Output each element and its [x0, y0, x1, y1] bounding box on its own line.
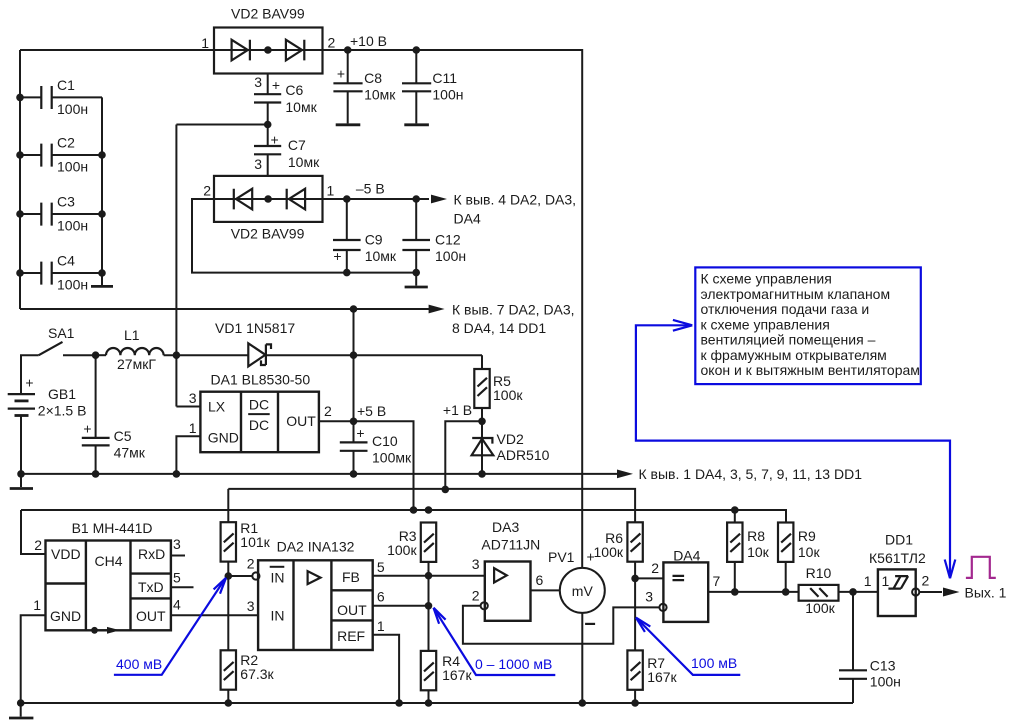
svg-text:DA2 INA132: DA2 INA132	[277, 539, 355, 555]
wire R6 bottom to R7	[634, 562, 636, 651]
svg-text:PV1: PV1	[548, 549, 575, 565]
svg-text:OUT: OUT	[337, 602, 367, 618]
node DA2 in-	[225, 572, 233, 580]
svg-text:REF: REF	[337, 628, 365, 644]
svg-text:101к: 101к	[240, 534, 270, 550]
wire +1V to distribution line	[445, 421, 482, 489]
capacitor C9	[346, 199, 348, 240]
svg-text:FB: FB	[342, 569, 360, 585]
svg-text:100н: 100н	[57, 277, 88, 293]
svg-text:C2: C2	[57, 135, 75, 151]
wire bottom rail	[21, 702, 853, 704]
svg-text:DA4: DA4	[673, 548, 700, 564]
wire right rail of C1-C4	[101, 97, 103, 273]
svg-text:VD2 BAV99: VD2 BAV99	[231, 6, 305, 22]
node C6/C7 junction	[264, 121, 272, 129]
wire R1 bottom to R2	[227, 562, 229, 651]
svg-text:100к: 100к	[594, 544, 624, 560]
svg-text:CH4: CH4	[95, 553, 123, 569]
node VD1/DA1 +5V vertical	[350, 351, 358, 359]
svg-text:+: +	[337, 66, 345, 82]
svg-text:10к: 10к	[798, 544, 821, 560]
svg-text:+5 В: +5 В	[357, 403, 386, 419]
blue arrow down to output	[945, 560, 956, 579]
svg-text:–5 В: –5 В	[356, 181, 385, 197]
svg-text:DA4: DA4	[454, 211, 481, 227]
svg-text:6: 6	[377, 589, 385, 605]
magenta pulse symbol	[966, 557, 996, 578]
resistor R8	[727, 523, 742, 562]
svg-text:К выв. 7 DA2, DA3,: К выв. 7 DA2, DA3,	[452, 302, 575, 318]
ground below C4 rail	[101, 273, 103, 285]
ground bottom left	[20, 703, 22, 717]
svg-text:167к: 167к	[442, 667, 472, 683]
svg-text:mV: mV	[572, 583, 594, 599]
svg-text:3: 3	[254, 74, 262, 90]
svg-text:6: 6	[536, 572, 544, 588]
svg-text:LX: LX	[208, 399, 226, 415]
svg-text:1: 1	[33, 597, 41, 613]
dual diode VD2 BAV99 (bottom)	[214, 176, 323, 222]
svg-text:167к: 167к	[647, 669, 677, 685]
capacitor C5	[95, 355, 97, 438]
svg-text:27мкГ: 27мкГ	[117, 356, 156, 372]
svg-text:ADR510: ADR510	[497, 447, 550, 463]
svg-text:DA1 BL8530-50: DA1 BL8530-50	[211, 372, 311, 388]
arrow K vyv.4	[431, 195, 447, 204]
svg-text:+: +	[25, 375, 33, 391]
svg-text:100н: 100н	[435, 248, 466, 264]
resistor R2	[221, 650, 236, 689]
wire LX vertical	[175, 125, 177, 407]
svg-text:C9: C9	[365, 232, 383, 248]
svg-text:2: 2	[922, 573, 930, 589]
svg-text:400 мВ: 400 мВ	[116, 656, 162, 672]
capacitor C13	[852, 592, 854, 670]
capacitor C8	[347, 50, 349, 83]
svg-text:C5: C5	[114, 428, 132, 444]
svg-text:10к: 10к	[747, 544, 770, 560]
wire to DA2 pin2 circle	[228, 575, 252, 577]
svg-text:К выв. 1 DA4, 3, 5, 7, 9, 11,: К выв. 1 DA4, 3, 5, 7, 9, 11, 13 DD1	[639, 466, 863, 482]
svg-text:SA1: SA1	[48, 325, 75, 341]
svg-text:100н: 100н	[57, 159, 88, 175]
resistor R9	[778, 523, 793, 562]
pin 2 circle of DD1	[912, 588, 919, 595]
svg-text:DA3: DA3	[492, 519, 519, 535]
wire VD2 bottom left loop	[192, 199, 416, 273]
wire PV1 bottom to rail	[581, 613, 583, 703]
zener VD2 ADR510	[481, 421, 483, 474]
svg-text:47мк: 47мк	[114, 445, 146, 461]
svg-text:2: 2	[247, 556, 255, 572]
svg-text:1: 1	[189, 420, 197, 436]
svg-text:10мк: 10мк	[285, 99, 317, 115]
svg-text:8 DA4, 14 DD1: 8 DA4, 14 DD1	[452, 320, 546, 336]
svg-text:Вых. 1: Вых. 1	[965, 585, 1007, 601]
svg-text:100к: 100к	[387, 542, 417, 558]
resistor R4	[421, 651, 436, 690]
node dots right rail	[98, 151, 106, 159]
svg-text:2: 2	[203, 183, 211, 199]
svg-text:+: +	[272, 77, 280, 93]
svg-text:5: 5	[377, 559, 385, 575]
svg-text:7: 7	[713, 573, 721, 589]
svg-text:10мк: 10мк	[364, 87, 396, 103]
svg-text:10мк: 10мк	[288, 154, 320, 170]
wire from junction to LX vertical	[176, 124, 267, 126]
svg-text:OUT: OUT	[136, 608, 166, 624]
node junction x353.5 on kv7	[350, 305, 358, 313]
svg-text:5: 5	[173, 570, 181, 586]
svg-text:TxD: TxD	[138, 579, 164, 595]
svg-text:+10 В: +10 В	[350, 33, 387, 49]
svg-text:DC: DC	[249, 417, 269, 433]
svg-text:VD2: VD2	[497, 431, 524, 447]
svg-text:1: 1	[327, 183, 335, 199]
resistor R5	[481, 355, 483, 369]
wire DA3 pin2 feedback loop to DA4 pin3	[463, 606, 660, 644]
wire rail to B1 VDD	[21, 510, 46, 554]
svg-text:3: 3	[254, 156, 262, 172]
node dots left rail	[16, 94, 24, 102]
svg-text:3: 3	[189, 390, 197, 406]
svg-text:RxD: RxD	[138, 546, 165, 562]
svg-text:C1: C1	[57, 77, 75, 93]
svg-text:VDD: VDD	[51, 546, 81, 562]
svg-text:+1 В: +1 В	[443, 402, 472, 418]
capacitor C3	[20, 213, 102, 215]
ground below left rail	[20, 474, 22, 487]
capacitor C1	[20, 96, 102, 98]
svg-text:C7: C7	[288, 137, 306, 153]
svg-text:R10: R10	[806, 565, 832, 581]
output wire and arrow	[919, 591, 942, 593]
svg-text:2: 2	[328, 35, 336, 51]
svg-text:B1 MH-441D: B1 MH-441D	[72, 520, 153, 536]
svg-text:C4: C4	[57, 253, 75, 269]
svg-text:VD1 1N5817: VD1 1N5817	[215, 320, 295, 336]
hysteresis symbol	[888, 576, 908, 589]
svg-text:C6: C6	[285, 82, 303, 98]
wire left vertical rail	[19, 50, 21, 309]
svg-text:C11: C11	[432, 70, 457, 86]
svg-text:1: 1	[864, 573, 872, 589]
svg-text:C12: C12	[435, 232, 461, 248]
svg-text:100к: 100к	[493, 387, 523, 403]
svg-text:100мк: 100мк	[372, 450, 412, 466]
svg-text:0 – 1000 мВ: 0 – 1000 мВ	[475, 656, 552, 672]
svg-text:DD1: DD1	[885, 532, 913, 548]
svg-text:OUT: OUT	[286, 413, 316, 429]
svg-text:+: +	[271, 132, 279, 148]
svg-text:2×1.5 В: 2×1.5 В	[38, 403, 87, 419]
wire VD2 pin3 down to C6	[267, 74, 269, 95]
wire top rail right segment to PV1 vertical	[323, 50, 583, 568]
svg-text:VD2 BAV99: VD2 BAV99	[231, 226, 305, 242]
svg-text:IN: IN	[271, 570, 285, 586]
capacitor C10	[340, 442, 368, 450]
svg-text:DC: DC	[249, 397, 269, 413]
diode VD2.3 (points left)	[234, 189, 252, 210]
svg-text:3: 3	[472, 556, 480, 572]
arrow to K vyv.7	[429, 305, 445, 314]
node R10/DD1/C13	[849, 588, 857, 596]
svg-text:C10: C10	[372, 433, 398, 449]
resistor R7	[627, 650, 642, 689]
node center VD2 bottom	[264, 195, 272, 203]
wire +5V rail y=510	[21, 510, 786, 523]
diode VD2.2 right	[286, 40, 304, 61]
wire R3 bottom to R4	[428, 562, 430, 651]
svg-text:1: 1	[882, 573, 890, 589]
capacitor C6	[254, 94, 281, 102]
svg-text:R8: R8	[747, 528, 765, 544]
node LX junction on L1 wire	[173, 351, 181, 359]
capacitor C7	[267, 125, 269, 147]
svg-text:GND: GND	[50, 608, 81, 624]
svg-text:3: 3	[247, 598, 255, 614]
svg-text:C13: C13	[870, 658, 896, 674]
svg-text:+: +	[356, 425, 364, 441]
svg-text:C8: C8	[364, 70, 382, 86]
node +1V at R5 bottom	[478, 418, 486, 426]
svg-text:IN: IN	[271, 608, 285, 624]
B1 internal arrow	[91, 627, 98, 634]
pin 2 circle of DA2	[252, 572, 259, 579]
wire K vyv.7 line	[20, 308, 429, 310]
wire R1 top feed	[227, 489, 229, 522]
svg-text:10мк: 10мк	[365, 248, 397, 264]
capacitor C12	[415, 199, 417, 240]
capacitor C11	[415, 50, 417, 83]
svg-text:AD711JN: AD711JN	[481, 537, 540, 553]
triangle inside DA2	[308, 571, 321, 584]
svg-text:100н: 100н	[870, 674, 901, 690]
svg-text:100к: 100к	[805, 600, 835, 616]
svg-text:100н: 100н	[57, 101, 88, 117]
capacitor C2	[20, 154, 102, 156]
svg-text:К выв. 4 DA2, DA3,: К выв. 4 DA2, DA3,	[454, 192, 577, 208]
node SA1/C5 junction	[92, 351, 100, 359]
svg-text:2: 2	[324, 403, 332, 419]
wire K vyv.1 bottom line	[21, 473, 618, 475]
ground below C12	[415, 273, 417, 286]
svg-text:3: 3	[173, 536, 181, 552]
svg-text:4: 4	[173, 597, 181, 613]
svg-text:100н: 100н	[432, 87, 463, 103]
wire +1V distribution line y=489	[228, 489, 635, 522]
svg-text:+: +	[333, 248, 341, 264]
svg-text:К561ТЛ2: К561ТЛ2	[869, 550, 926, 566]
svg-text:L1: L1	[124, 327, 140, 343]
diode VD2.1 left	[232, 40, 250, 61]
node center of VD2 top	[264, 46, 272, 54]
capacitor C4	[20, 272, 102, 274]
blue note box	[695, 267, 921, 384]
wire +5V vertical x=353.5	[353, 309, 355, 442]
blue arrow into box	[636, 325, 950, 574]
svg-text:R9: R9	[798, 528, 816, 544]
svg-text:1: 1	[377, 618, 385, 634]
svg-text:+: +	[83, 421, 91, 437]
svg-text:2: 2	[472, 588, 480, 604]
svg-text:67.3к: 67.3к	[240, 666, 274, 682]
svg-text:2: 2	[651, 560, 659, 576]
svg-text:100 мВ: 100 мВ	[691, 655, 737, 671]
svg-text:2: 2	[34, 537, 42, 553]
svg-text:3: 3	[645, 589, 653, 605]
wire -5V line	[323, 198, 430, 200]
resistor R1	[221, 522, 236, 561]
svg-text:GND: GND	[208, 430, 239, 446]
svg-text:C3: C3	[57, 194, 75, 210]
svg-text:100н: 100н	[57, 218, 88, 234]
diode VD2.4 (points left)	[287, 189, 305, 210]
svg-text:GB1: GB1	[48, 386, 76, 402]
wire top rail left segment	[20, 49, 214, 51]
svg-text:1: 1	[201, 35, 209, 51]
